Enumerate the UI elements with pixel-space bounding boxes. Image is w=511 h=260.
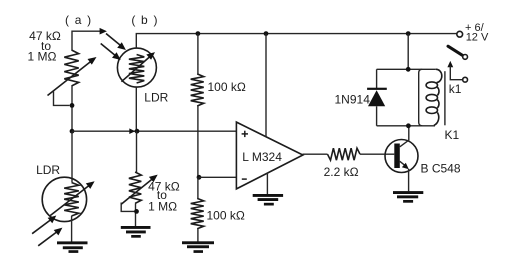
diode D1 triangle xyxy=(368,90,385,106)
wire LDR2 bottom lead xyxy=(135,87,137,131)
light arrow 2 into LDR2 xyxy=(101,44,121,61)
svg-text:B C548: B C548 xyxy=(421,162,461,176)
junction node collector xyxy=(406,123,411,128)
junction node inverting input xyxy=(197,175,202,180)
light arrow 1 into LDR1 xyxy=(32,216,56,234)
ground under P2 xyxy=(121,226,151,238)
junction node rail op-amp supply xyxy=(264,31,269,36)
transistor Q1 BC548 circle xyxy=(385,140,418,173)
LDR2 (b) diagonal arrow xyxy=(121,52,155,82)
wire P2 wiper return loop xyxy=(121,203,134,212)
wire relay branch from rail xyxy=(407,34,409,70)
svg-text:k1: k1 xyxy=(449,82,462,96)
relay coil K1 envelope xyxy=(419,69,423,126)
potentiometer P2 body xyxy=(129,172,141,203)
wire LDR1 bottom lead xyxy=(71,216,73,242)
transistor Q1 base bar xyxy=(394,144,400,169)
transistor Q1 emitter with arrow xyxy=(400,161,409,169)
wire diode-relay top xyxy=(377,68,436,70)
svg-text:2.2 kΩ: 2.2 kΩ xyxy=(324,165,359,179)
relay core bar xyxy=(444,71,446,125)
wire op-amp ground pin xyxy=(266,173,268,194)
LDR1 resistor element xyxy=(64,183,79,217)
switch k1 actuation arrow xyxy=(447,61,462,80)
switch k1 fixed contact circle xyxy=(463,77,468,82)
junction node rail R1 xyxy=(196,31,201,36)
resistor R3 2.2k body xyxy=(328,148,361,160)
op-amp plus sign xyxy=(242,131,248,137)
wire LDR2 top lead to supply rail corner xyxy=(136,34,198,49)
junction node non-inverting bus left xyxy=(70,129,75,134)
wire P1 top lead and horizontal run xyxy=(72,31,101,50)
svg-text:( a ): ( a ) xyxy=(65,13,92,27)
svg-text:100 kΩ: 100 kΩ xyxy=(207,209,245,223)
resistor R1 100k body xyxy=(191,74,204,106)
wire op-amp output xyxy=(303,153,328,155)
supply terminal circle xyxy=(457,31,463,37)
junction node P1 wiper tie xyxy=(70,103,75,108)
wire R3 to base xyxy=(360,153,394,155)
label +6/12V xyxy=(465,22,489,44)
junction node relay top xyxy=(406,67,411,72)
op-amp minus sign xyxy=(242,178,247,180)
potentiometer P1 value label 47 kOhm to 1 MOhm xyxy=(28,29,61,63)
wire P1 bottom lead xyxy=(71,86,73,131)
wire P1 wiper return loop xyxy=(54,91,70,105)
resistor R1 100k top lead xyxy=(197,34,199,74)
svg-text:LDR: LDR xyxy=(144,91,168,105)
junction node rail relay branch xyxy=(406,31,411,36)
switch k1 moving contact circle xyxy=(463,55,468,60)
LDR1 diagonal arrow xyxy=(50,181,94,215)
arrow from P1 toward LDR (b) xyxy=(100,28,107,35)
junction node bus P2 xyxy=(135,129,140,134)
transistor Q1 collector xyxy=(400,126,409,147)
ground under Q1 xyxy=(393,191,423,203)
op-amp U1 LM324 xyxy=(236,122,303,189)
wire R1 bottom to inverting node xyxy=(197,106,199,177)
svg-text:1 MΩ: 1 MΩ xyxy=(148,199,177,213)
svg-text:( b ): ( b ) xyxy=(131,13,158,27)
relay coil K1 loops xyxy=(426,69,442,125)
svg-text:K1: K1 xyxy=(445,128,460,142)
wire op-amp supply xyxy=(265,34,267,137)
svg-text:1 MΩ: 1 MΩ xyxy=(28,49,57,63)
ground under op-amp xyxy=(253,194,283,206)
wire R2 bottom lead xyxy=(197,229,199,242)
svg-text:1N914: 1N914 xyxy=(335,93,371,107)
potentiometer P2 wiper arrow xyxy=(121,175,158,205)
potentiometer P1 wiper arrow xyxy=(48,57,97,96)
light arrow 1 into LDR2 xyxy=(106,34,126,51)
LDR2 (b) circle xyxy=(117,48,156,87)
svg-text:12 V: 12 V xyxy=(466,32,489,44)
diode D1 cathode bar xyxy=(367,88,387,90)
wire P2 bottom lead xyxy=(135,203,137,226)
svg-text:LDR: LDR xyxy=(36,163,60,177)
arrow on bus into node xyxy=(129,128,135,134)
wire P2 top lead xyxy=(136,131,138,172)
diode D1 1N914 top lead xyxy=(376,69,378,88)
LDR2 (b) resistor element xyxy=(129,55,144,84)
junction node P2 wiper tie xyxy=(134,209,139,214)
ground under R2 xyxy=(182,241,214,253)
resistor R2 100k body xyxy=(191,198,204,228)
supply rail top xyxy=(198,33,457,35)
ground under LDR1 xyxy=(57,241,88,253)
light arrow 2 into LDR1 xyxy=(38,228,62,246)
svg-text:L M324: L M324 xyxy=(242,150,282,164)
wire LDR1 top lead xyxy=(71,131,73,182)
wire diode-relay bottom xyxy=(377,125,435,127)
resistor R2 100k top lead xyxy=(197,177,199,198)
svg-text:100 kΩ: 100 kΩ xyxy=(208,80,246,94)
LDR1 circle xyxy=(42,177,86,221)
switch k1 blade xyxy=(448,46,462,55)
wire inverting input xyxy=(199,176,236,178)
wire Q1 emitter to ground xyxy=(408,169,410,191)
potentiometer P1 body xyxy=(64,50,78,86)
non-inverting input bus xyxy=(72,130,236,132)
diode D1 bottom lead xyxy=(376,106,378,126)
potentiometer P2 value label xyxy=(148,180,180,214)
